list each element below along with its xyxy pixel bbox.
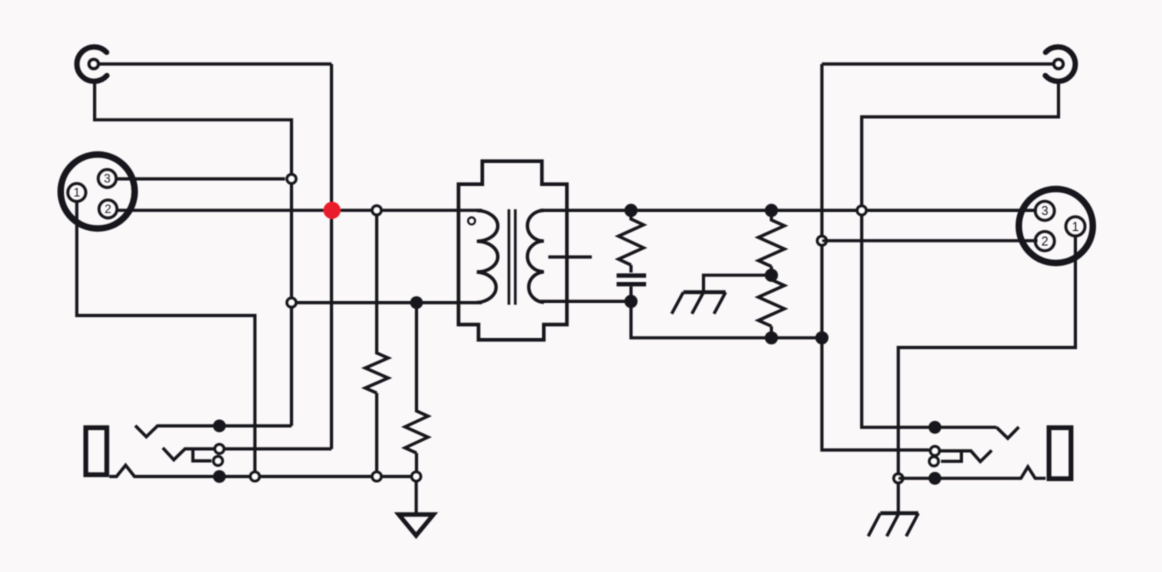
wire XLR-R pin2 line: [822, 239, 1038, 242]
node red highlighted junction: [323, 202, 340, 219]
wire RCA-R pin to node line: [822, 62, 1053, 65]
terminal hot/R1 junction (open): [372, 206, 381, 215]
svg-text:3: 3: [104, 171, 111, 185]
resistor R2: [405, 303, 428, 472]
resistor R3: [619, 210, 644, 272]
terminal sleeve/pin1 junction (open): [250, 472, 259, 481]
XLR-L pin 3: [98, 170, 116, 188]
resistor R5: [758, 275, 784, 338]
svg-text:2: 2: [105, 202, 112, 216]
resistor R1: [365, 214, 388, 472]
wire XLR-L pin2 to transformer primary (hot): [117, 209, 482, 212]
TRS-R switch link: [941, 451, 961, 461]
XLR connector J2 (left) body: [61, 155, 135, 229]
transformer core: [509, 209, 515, 304]
TRS-L tip contact: [135, 426, 291, 437]
TRS jack J3 (left) body: [86, 428, 107, 475]
transformer T1 primary winding: [477, 211, 498, 303]
terminal sleeve/chassis junction (open): [894, 474, 903, 483]
TRS-R sleeve terminal dot: [929, 472, 942, 485]
wire RCA-L pin to node: [100, 62, 332, 65]
TRS-R shunt terminal (open): [929, 457, 938, 466]
TRS-R sleeve line with bump: [898, 467, 1045, 479]
transformer T1 shield outline: [459, 161, 567, 340]
terminal R1 bottom (open): [372, 472, 381, 481]
node cold/RCA junction dot: [815, 331, 828, 344]
ground (signal ground triangle): [399, 515, 434, 536]
RCA jack J4 (right) shield arc: [1045, 47, 1075, 81]
XLR-L pin 2: [99, 200, 117, 218]
TRS-L switch link: [193, 449, 212, 461]
ground lead: [415, 481, 418, 513]
RCA jack J1 (left) shield arc: [77, 47, 107, 81]
RCA jack J4 center pin: [1054, 59, 1063, 68]
svg-text:1: 1: [1072, 220, 1079, 234]
wire RCA-R node line down to ring: [822, 64, 929, 450]
node R4 top dot: [765, 204, 778, 217]
TRS-L ring contact: [163, 448, 332, 460]
node R5 bottom dot: [765, 331, 778, 344]
transformer phase dot: [468, 218, 475, 225]
terminal R2/ground (open): [412, 472, 421, 481]
wire XLR-L pin1 down and over: [77, 201, 255, 471]
wire secondary hot line to XLR-R pin3: [540, 209, 1037, 212]
terminal RCA/pin2 junction (open): [817, 236, 826, 245]
svg-text:3: 3: [1041, 204, 1048, 218]
capacitor C1: [617, 276, 647, 285]
resistor R4: [758, 210, 784, 275]
XLR connector J5 (right) body: [1019, 189, 1093, 263]
terminal pin3/shield junction (open): [287, 174, 296, 183]
node R3 top dot: [624, 204, 637, 217]
TRS-L ring terminal (open): [215, 444, 224, 453]
svg-text:2: 2: [1041, 235, 1048, 249]
XLR-L pin 1: [68, 184, 86, 202]
svg-text:1: 1: [73, 185, 80, 199]
RCA jack J1 center pin: [89, 59, 98, 68]
terminal shield/hot junction (open): [857, 206, 866, 215]
wire RCA-L shield down-right-down: [95, 81, 292, 426]
TRS-L sleeve terminal dot: [213, 470, 226, 483]
terminal cold-line junction (open): [287, 298, 296, 307]
chassis ground (center): [672, 292, 726, 314]
TRS-L shunt terminal (open): [214, 456, 223, 465]
TRS-R ring terminal (open): [930, 446, 939, 455]
wire primary cold line: [292, 301, 483, 304]
wire secondary cold lead: [540, 300, 631, 303]
wire XLR-R pin1 down-left-down: [898, 236, 1075, 512]
transformer shield tap stub: [548, 255, 592, 258]
TRS-R ring contact: [940, 450, 992, 461]
TRS jack J6 (right) body: [1049, 428, 1071, 479]
TRS-L sleeve line with bump: [109, 465, 416, 476]
XLR-R pin 1: [1066, 217, 1085, 236]
chassis ground (right): [868, 513, 918, 536]
wire RCA-R shield down-left-down: [862, 81, 1059, 428]
wire cold jog down and right: [631, 301, 822, 337]
wire chassis link: [704, 275, 772, 290]
resistor R2 top dot: [410, 296, 423, 309]
TRS-R tip terminal dot: [929, 421, 942, 434]
wire RCA-L hot down (node line): [330, 64, 333, 449]
TRS-L tip terminal dot: [213, 420, 226, 433]
transformer T1 secondary winding: [527, 210, 544, 302]
TRS-R tip contact check: [997, 427, 1019, 438]
XLR-R pin 2: [1035, 232, 1054, 251]
node R4/R5 mid dot: [765, 269, 778, 282]
wire XLR-L pin3 to terminal: [116, 177, 285, 180]
capacitor C1 lead / node dot: [624, 286, 637, 308]
XLR-R pin 3: [1035, 201, 1054, 220]
